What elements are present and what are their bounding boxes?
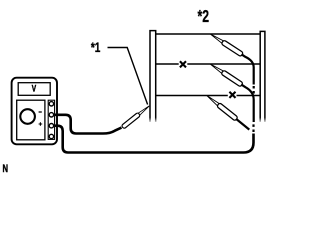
voltmeter dial knob [20, 109, 35, 124]
lead of probe P4 [236, 119, 249, 130]
probe P1 (test lead *1) [121, 104, 150, 129]
fade at connector block bottoms [0, 0, 1, 1]
pointer line for *1 [108, 48, 148, 105]
voltmeter M1 body [12, 78, 57, 145]
lead of probe P3 [241, 84, 254, 122]
wire W2 (middle, broken at X) [156, 63, 179, 65]
svg-text:*1: *1 [91, 40, 101, 56]
connector block right [260, 31, 265, 122]
wire: meter T2 to probe P1 [55, 115, 122, 134]
probe P4 on wire W3 [205, 94, 238, 121]
wire W1 (top) [156, 33, 261, 35]
svg-text:*2: *2 [198, 7, 210, 27]
svg-text:V: V [32, 84, 37, 94]
plus mark [39, 122, 43, 126]
probe P3 on wire W2 [209, 62, 243, 87]
connector block left [150, 31, 156, 122]
wire: meter T3 bottom lead to right side [55, 126, 254, 153]
wire: dashed end of bottom lead [252, 123, 254, 133]
wire W3 (bottom, broken at X) [156, 95, 228, 97]
terminal T3 [49, 124, 53, 128]
break mark X2 on wire W3 [229, 92, 235, 98]
terminal T1 [49, 102, 53, 106]
minus mark [39, 111, 42, 113]
break mark X1 on wire W2 [180, 61, 186, 67]
lead of probe P2 [242, 54, 254, 84]
terminal strip [48, 100, 54, 139]
terminal T2 [49, 113, 53, 117]
probe P2 on wire W1 [209, 32, 243, 57]
voltmeter display box with V [18, 83, 50, 96]
voltmeter dial panel [17, 100, 45, 140]
svg-text:N: N [3, 163, 9, 174]
terminal T4 [49, 134, 53, 138]
